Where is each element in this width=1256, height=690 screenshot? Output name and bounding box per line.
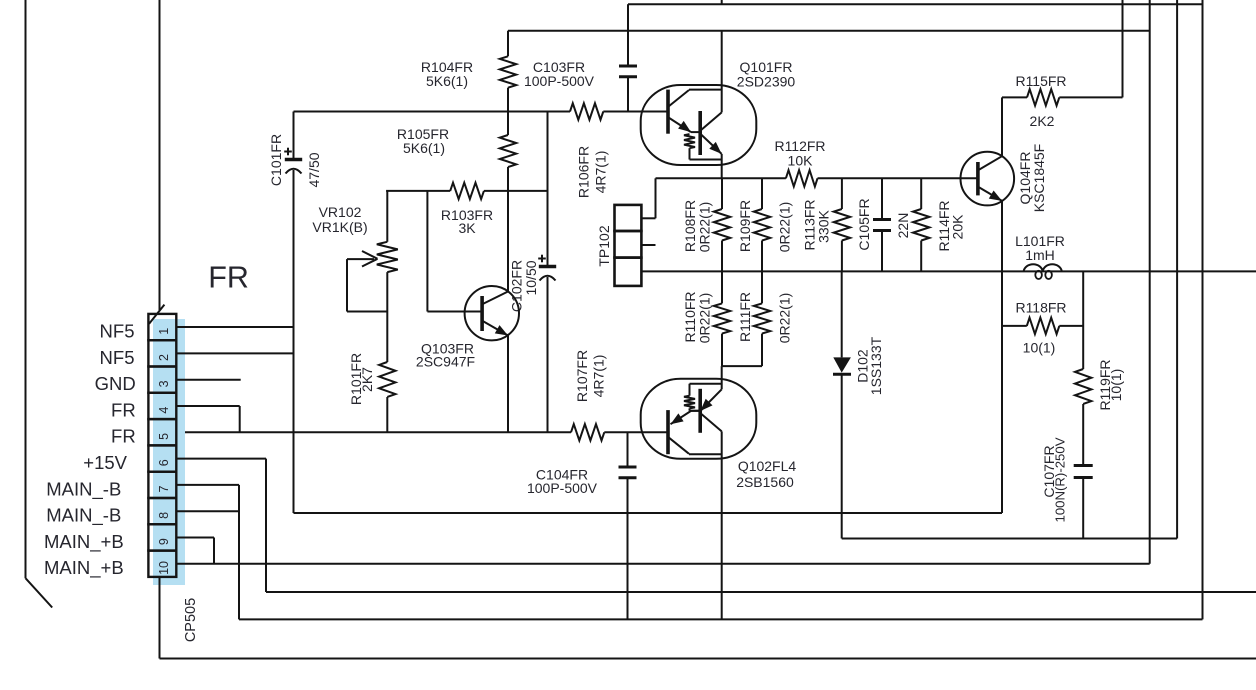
svg-text:8: 8 [157,512,171,519]
wire Q104 collector vertical [1001,97,1003,156]
capacitor C104FR [619,466,637,469]
wire R104 bottom to R105 top (through node y=111.5) [507,88,509,135]
transistor Q101 T2 base bar [698,111,702,155]
wire FR rail y=432.3 right to Q102 base [604,431,668,433]
wire R103 right lead [484,190,548,192]
wire R101 bottom lead [386,397,388,432]
wire R110 top lead [721,271,723,303]
svg-text:6: 6 [157,459,171,466]
svg-text:FR: FR [208,261,249,295]
svg-text:+15V: +15V [83,452,127,473]
resistor R115FR [1027,89,1059,105]
svg-text:NF5: NF5 [100,347,135,368]
wire pin6 +15V [176,458,266,460]
capacitor C103FR [619,65,637,68]
wire Q103 base horizontal [427,311,482,313]
svg-text:2SC947F: 2SC947F [416,354,475,370]
svg-text:100N(R)-250V: 100N(R)-250V [1052,437,1067,522]
wire C105 top lead [881,178,883,219]
wire R109 bottom lead [761,241,763,272]
svg-text:47/50: 47/50 [306,152,322,187]
svg-text:7: 7 [157,486,171,493]
wire pin9 MAIN_+B [176,537,214,539]
svg-text:NF5: NF5 [100,320,135,341]
wire C107 bottom lead [1082,478,1084,539]
transistor Q103 collector diagonal [483,292,508,305]
transistor Q102 T1 emitter diagonal [671,411,692,424]
svg-text:R107FR: R107FR [574,350,590,402]
wire Q102 collector vertical down to MAIN_-B line [721,431,723,619]
resistor R114FR [913,209,929,240]
wire bottom rail y=513 [294,512,1003,514]
wire Q103 base vertical [426,191,428,312]
svg-text:0R22(1): 0R22(1) [777,293,793,344]
wire right vertical x=1149.7 [1149,0,1151,564]
resistor Q101 internal [684,134,695,148]
wire R119 bottom lead [1082,404,1084,466]
transistor Q104 collector diagonal [979,156,1003,170]
resistor R108FR [714,209,730,240]
connector CP505 pin1 diagonal mark [149,305,164,324]
wire Q101 emitter vertical [721,154,723,178]
svg-text:2SB1560: 2SB1560 [736,474,794,490]
wire C105 bottom lead [881,231,883,272]
svg-text:3: 3 [157,380,171,387]
wire R113 bottom lead [841,241,843,272]
wire Q102 emitter vertical [721,366,723,389]
resistor R112FR [786,170,818,186]
wire C101 bottom lead down to bottom rail [293,170,295,513]
capacitor C102FR (electrolytic) [539,265,556,268]
wire R105 bottom lead [507,167,509,191]
transistor Q101 T1 emitter diagonal [669,118,692,133]
resistor R118FR [1027,318,1060,334]
transistor Q102 T1 base bar [666,410,670,454]
connector CP505 pin boxes [148,314,176,340]
wire R114 top lead [920,178,922,209]
wire C104 bottom lead down to MAIN_-B line [627,478,629,620]
svg-text:3K: 3K [458,220,476,236]
transistor Q104 circle [961,152,1015,206]
wire TP102 pin1 lead [642,217,656,219]
svg-text:FR: FR [111,399,136,420]
capacitor C101FR (electrolytic) [285,158,302,161]
transistor Q101 T1 collector diagonal [669,90,690,107]
wire pin4 FR [176,405,239,407]
wire top net line upper [628,3,1204,5]
wire left page border vertical [25,0,27,578]
svg-text:10: 10 [157,561,171,575]
svg-text:CP505: CP505 [183,598,199,642]
resistor R111FR [754,303,770,333]
resistor R104FR [500,56,516,87]
svg-text:GND: GND [95,373,136,394]
svg-text:MAIN_+B: MAIN_+B [44,557,124,579]
capacitor C105FR [873,218,891,221]
wire right vertical x=1202.5 [1202,0,1204,619]
svg-text:0R22(1): 0R22(1) [697,202,713,253]
svg-text:Q102FL4: Q102FL4 [738,458,797,474]
wire pin10 MAIN_+B [176,563,1149,565]
transistor Q103 base bar [480,296,484,331]
wire VR102 top lead [386,191,388,242]
svg-text:MAIN_-B: MAIN_-B [46,478,121,500]
svg-text:2K7: 2K7 [359,367,375,392]
wire Q102 T2 base link [691,410,700,412]
transistor Q104 base bar [976,162,980,195]
svg-text:5K6(1): 5K6(1) [403,140,445,156]
svg-text:5K6(1): 5K6(1) [426,73,468,89]
transistor Q101 T2 emitter diagonal [701,134,722,154]
wire Q101 collector vertical [721,31,723,113]
wire pin8 MAIN_-B [176,510,239,512]
wire C102 top lead [547,112,549,266]
svg-text:9: 9 [157,538,171,545]
resistor R113FR [834,209,850,240]
svg-text:2: 2 [157,354,171,361]
wire pin3 GND stub [176,379,240,381]
svg-text:R109FR: R109FR [737,200,753,252]
wire connector bottom stem [159,577,161,659]
svg-text:R106FR: R106FR [576,146,592,198]
connector CP505 blue band [153,319,185,585]
wire R108 top lead [721,178,723,209]
svg-text:20K: 20K [950,214,966,240]
transistor Q103 emitter diagonal [483,321,508,336]
wire Q103 collector vertical [507,191,509,292]
svg-text:22N: 22N [895,213,911,239]
wire VR102 wiper to bottom terminal [347,311,387,313]
wire C101 top lead [293,112,295,159]
resistor R105FR [500,135,516,167]
svg-text:10/50: 10/50 [523,260,539,295]
svg-text:100P-500V: 100P-500V [527,480,598,496]
wire R104 top lead [507,31,509,57]
transistor Q102 T1 collector diagonal [669,437,690,454]
wire R119 top lead [1082,271,1084,369]
wire C103 bottom lead [627,77,629,112]
wire D102 bottom lead [841,376,843,539]
inductor L101FR [1024,264,1062,271]
wire R110/R111 bottom node to Q102 emitter [722,365,762,367]
transistor Q103 circle [465,286,519,340]
transistor Q102 T2 base bar [698,389,702,433]
svg-text:R111FR: R111FR [737,292,753,342]
wire Q103 emitter vertical [507,336,509,433]
wire D102 top lead [841,271,843,357]
svg-text:4R7(1): 4R7(1) [593,151,609,194]
wire C104 top lead [627,432,629,467]
wire pin2 NF5 [176,352,293,354]
svg-text:R115FR: R115FR [1015,73,1066,89]
svg-text:MAIN_+B: MAIN_+B [44,531,124,553]
wire VR102 bottom lead to R101 [386,272,388,362]
svg-text:100P-500V: 100P-500V [524,73,595,89]
resistor R119FR [1075,369,1091,404]
testpoint TP102 boxes [615,205,642,231]
resistor R103FR [450,183,484,199]
svg-text:0R22(1): 0R22(1) [697,293,713,344]
svg-text:10(1): 10(1) [1023,340,1056,356]
svg-text:KSC1845F: KSC1845F [1031,144,1047,212]
potentiometer VR102 [377,242,398,272]
svg-text:10K: 10K [788,153,814,169]
wire D102 net line y=538.5 [842,538,1177,540]
wire R111 top lead [761,271,763,303]
wire R111 bottom lead [761,334,763,367]
wire top net line lower (R104 top to right) [508,30,1150,32]
svg-text:330K: 330K [816,209,832,242]
svg-text:1: 1 [157,328,171,335]
wire pin7 MAIN_-B [176,484,239,486]
transistor Q101 body outline [641,85,757,165]
resistor R107FR [571,424,604,440]
svg-text:4R7(1): 4R7(1) [591,355,607,398]
svg-text:2K2: 2K2 [1030,113,1055,129]
wire TP102 pin2 stub [642,244,656,246]
svg-text:MAIN_-B: MAIN_-B [46,505,121,527]
wire right vertical x=1177.1 [1176,0,1178,539]
wire R115 right vertical off-page top [1122,0,1124,97]
transistor Q101 T2 collector diagonal [701,112,722,130]
svg-text:1mH: 1mH [1025,247,1055,263]
wire bottom net line y=658.5 [160,658,1256,660]
resistor R110FR [714,303,730,333]
wire R103 left lead from VR102 top [386,190,450,192]
svg-text:C105FR: C105FR [856,198,872,250]
transistor Q102 body outline [641,379,757,459]
wire emitter rail y=178.3 left [656,177,786,179]
wire Q102 internal collector horizontal [689,453,722,455]
wire Q101 T2 base link [691,131,700,133]
svg-text:1SS133T: 1SS133T [868,336,884,395]
wire middle rail y=271.4 [642,270,1256,272]
resistor R106FR [570,103,603,119]
svg-text:FR: FR [111,426,136,447]
svg-text:TP102: TP102 [596,225,612,266]
svg-text:VR1K(B): VR1K(B) [312,219,367,235]
wire emitter rail y=178.3 right [818,177,978,179]
resistor R109FR [754,209,770,240]
diode D102 [833,357,851,372]
wire Q101 internal resistor bottom [689,148,691,159]
wire R109 top lead [761,178,763,209]
transistor Q104 emitter diagonal [979,187,1003,201]
wire top stub off-page at x=721.7 [721,0,723,4]
svg-text:C101FR: C101FR [268,134,284,186]
wire left page border diagonal tear [26,578,53,607]
wire R115 left lead from Q104 collector [1002,96,1027,98]
svg-text:4: 4 [157,407,171,414]
transistor Q101 T1 base bar [666,90,670,134]
transistor Q102 T2 emitter diagonal [700,389,721,411]
wire C102 bottom lead [547,277,549,432]
wire C103 top lead [627,4,629,66]
wire node NF line y=111.5 left segment [294,111,571,113]
svg-text:2SD2390: 2SD2390 [737,74,796,90]
wire Q102 internal resistor top [689,384,691,396]
wire Q101 internal collector horizontal [689,89,722,91]
wire R115 right lead [1059,96,1122,98]
svg-text:VR102: VR102 [319,204,362,220]
capacitor C107FR [1074,464,1093,467]
svg-text:10(1): 10(1) [1108,369,1124,402]
wire R118 left lead [1002,325,1027,327]
resistor Q102 internal [684,396,695,409]
wire R108 bottom lead [721,241,723,272]
wire Q104 emitter vertical down to bottom rail [1001,201,1003,513]
svg-text:R118FR: R118FR [1015,300,1066,316]
svg-text:5: 5 [157,433,171,440]
wire R114 bottom lead [920,241,922,272]
svg-text:0R22(1): 0R22(1) [777,202,793,253]
resistor R101FR [379,362,395,397]
potentiometer VR102 wiper arrow [347,258,374,260]
wire top vertical into connector pin 1 [159,0,161,310]
wire FR rail y=432.3 left [176,431,571,433]
transistor Q102 T2 collector diagonal [701,413,722,431]
wire pin1 NF5 [176,326,293,328]
wire R113 top lead [841,178,843,209]
wire R110 bottom lead [721,334,723,367]
wire R118 right lead [1059,325,1083,327]
wire VR102 wiper down [346,259,348,311]
wire line y=111.5 right segment to Q101 base [603,111,668,113]
